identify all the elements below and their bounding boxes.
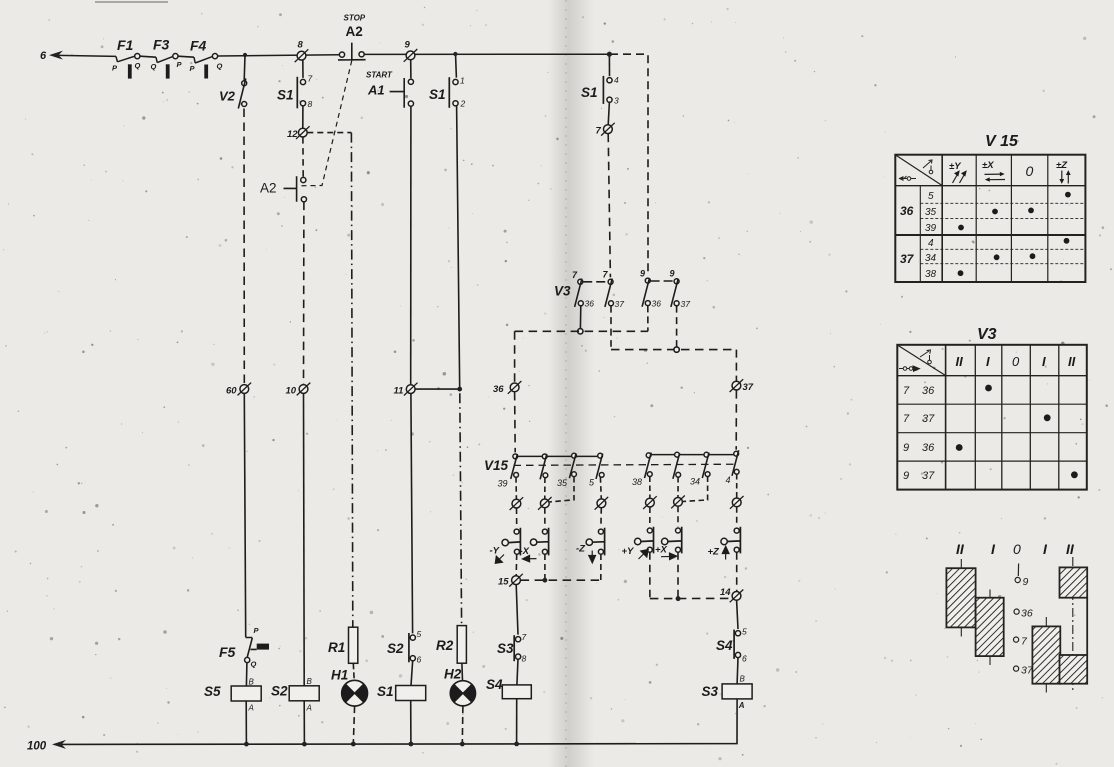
node junction bus S4 <box>514 742 519 747</box>
cam centerline II-left <box>960 559 962 637</box>
svg-text:II: II <box>956 541 965 557</box>
coil S3 <box>702 675 753 711</box>
wire col6 bus to S1 contact <box>608 57 610 77</box>
wire dashed 12 to column R1 <box>307 132 351 134</box>
node junction top bus x609 <box>607 52 612 57</box>
wire V15 r2 to terminal <box>677 477 679 498</box>
node junction bus S5 <box>244 742 249 747</box>
terminal v15-r4 <box>730 496 744 509</box>
wire top bus F1-F3 <box>140 56 156 57</box>
wire col5 dashed junction to R2 <box>460 393 462 625</box>
svg-text:R2: R2 <box>436 638 454 653</box>
svg-text:7: 7 <box>308 74 313 84</box>
wire col5 R2 to H2 <box>461 663 464 681</box>
svg-text:6: 6 <box>40 50 47 62</box>
contact V15 39 <box>513 454 518 459</box>
svg-text:B: B <box>249 678 255 687</box>
contact S1 pins 4 3 <box>581 75 619 106</box>
svg-text:A: A <box>248 704 254 713</box>
node open junction V3 37 <box>674 347 679 352</box>
svg-text:5: 5 <box>928 191 934 202</box>
svg-text:9: 9 <box>1023 576 1029 588</box>
wire top bus dashed end <box>610 54 648 276</box>
contact V15 rb <box>675 452 680 457</box>
wire terminal to button -Y <box>516 508 518 527</box>
terminal v15-1 <box>510 497 524 510</box>
wire V15 left top rail <box>515 455 600 457</box>
svg-text:Q: Q <box>251 660 257 669</box>
pushbutton -Z <box>576 528 605 563</box>
contact V15 5 <box>598 453 603 458</box>
wire top bus STOP to corner <box>364 53 610 55</box>
svg-text:H1: H1 <box>331 668 348 683</box>
svg-text:Q: Q <box>151 62 157 71</box>
pushbutton +X <box>655 527 682 560</box>
row lines <box>895 185 1085 187</box>
svg-text:A2: A2 <box>346 24 363 39</box>
header labels <box>949 160 1068 179</box>
node 6 top feed arrow <box>49 51 116 60</box>
contact V15 35 <box>572 453 577 458</box>
svg-text:7: 7 <box>596 126 602 137</box>
svg-text:+Z: +Z <box>708 547 721 558</box>
node junction top bus x245 <box>243 53 247 57</box>
svg-text:A1: A1 <box>367 83 385 98</box>
svg-text:I: I <box>1042 354 1046 369</box>
svg-text:Q: Q <box>135 61 141 70</box>
column lines <box>941 155 943 282</box>
overload release F5 <box>219 626 269 669</box>
fuse F1 <box>112 37 141 79</box>
svg-text:37: 37 <box>743 382 754 393</box>
wire mech link STOP to A2 <box>298 61 352 186</box>
wire col3 dash-dot 12 line down to R1 <box>351 133 352 628</box>
svg-text:V 15: V 15 <box>985 133 1019 150</box>
wire S4 coil to bus <box>516 699 518 744</box>
svg-text:±Z: ±Z <box>1056 160 1068 171</box>
fuse F4 <box>190 38 223 79</box>
svg-text:6: 6 <box>417 655 422 665</box>
svg-text:A: A <box>306 704 312 713</box>
svg-text:9: 9 <box>670 269 675 279</box>
svg-text:36: 36 <box>493 384 504 395</box>
wire terminal to button -X <box>544 508 546 528</box>
contact V15 4 <box>734 451 739 456</box>
svg-text:34: 34 <box>690 477 700 487</box>
svg-text:9: 9 <box>903 470 909 482</box>
node junction bus H1 <box>351 742 356 747</box>
svg-text:8: 8 <box>298 40 304 51</box>
contact S2 pins 5 6 <box>387 629 422 665</box>
svg-text:34: 34 <box>925 253 937 264</box>
cam block track36 left <box>946 568 975 627</box>
contact S1 pins 7 8 <box>277 74 313 110</box>
svg-text:V3: V3 <box>977 326 997 343</box>
svg-text:V2: V2 <box>219 89 236 104</box>
svg-text:36: 36 <box>585 299 595 309</box>
wire col5 bus to S1 contact <box>455 56 458 78</box>
cam contact 37 <box>1014 665 1034 677</box>
svg-text:5: 5 <box>742 627 747 637</box>
wire button +Y to rail 14 <box>649 552 651 598</box>
wire V15 c1 to terminal <box>515 477 517 499</box>
svg-text:14: 14 <box>720 587 731 598</box>
wire col1 V2 drop <box>243 55 246 81</box>
wire terminal to button +Z <box>736 507 738 527</box>
wire col3 R1 to H1 <box>352 663 355 680</box>
wire col4 11 to S2 contact <box>411 394 413 634</box>
table V15 <box>895 155 1085 282</box>
pushbutton +Z <box>708 527 741 560</box>
svg-text:S1: S1 <box>581 85 598 100</box>
svg-text:Q: Q <box>217 62 223 71</box>
svg-text:8: 8 <box>522 654 527 664</box>
wire col2 bus to S1 contact <box>302 60 304 78</box>
wire rail 15 dashed <box>521 579 601 581</box>
svg-text:7: 7 <box>903 385 910 397</box>
svg-text:0: 0 <box>1012 354 1020 369</box>
svg-text:9: 9 <box>903 442 909 454</box>
svg-text:-X: -X <box>520 546 530 557</box>
svg-text:R1: R1 <box>328 640 345 655</box>
wire dashed 37 to V15 contact 4 <box>735 390 737 450</box>
svg-text:36: 36 <box>922 385 935 397</box>
svg-text:37: 37 <box>1021 665 1034 677</box>
svg-text:9: 9 <box>640 269 645 279</box>
svg-text:8: 8 <box>308 99 313 109</box>
svg-text:V15: V15 <box>484 458 509 473</box>
contact V3 7-36 <box>578 279 583 284</box>
corner diagonal <box>896 155 942 185</box>
dots <box>956 385 1078 479</box>
terminal 10 <box>286 383 311 397</box>
svg-text:1: 1 <box>460 76 465 86</box>
terminal v15-r2 <box>671 496 685 509</box>
svg-text:S1: S1 <box>429 87 446 102</box>
terminal 60 <box>226 383 251 397</box>
wire corner down to terminal 37 <box>735 350 737 382</box>
svg-text:H2: H2 <box>444 667 462 682</box>
svg-text:S4: S4 <box>486 677 503 692</box>
node junction rail 15 <box>543 578 548 583</box>
resistor R1 <box>328 627 358 663</box>
svg-text:39: 39 <box>925 223 937 234</box>
wire 11 to col5 junction <box>415 388 460 390</box>
corner diagonal <box>898 345 946 375</box>
node 100 bottom bus with arrow <box>52 740 517 749</box>
contact group V15 <box>484 450 739 488</box>
terminal 36 <box>493 381 521 395</box>
svg-text:±X: ±X <box>982 160 994 171</box>
svg-text:F5: F5 <box>219 644 236 660</box>
lamp H1 <box>331 668 368 707</box>
svg-text:4: 4 <box>928 238 934 249</box>
svg-text:0: 0 <box>1013 541 1021 557</box>
wire V15 r1 to terminal <box>649 477 651 499</box>
node junction col5 x459 <box>457 387 462 392</box>
svg-text:F3: F3 <box>153 37 170 53</box>
dots <box>958 192 1071 276</box>
pushbutton -Y <box>490 528 521 564</box>
wire 14 down to S4 contact <box>737 600 738 629</box>
terminal 14 <box>720 587 743 602</box>
svg-text:A: A <box>738 701 745 710</box>
wire corner down to terminal 36 <box>514 331 516 383</box>
svg-text:37: 37 <box>922 470 935 482</box>
contact V2 <box>219 78 247 108</box>
wire dashed 36 to V15 rail <box>514 392 517 453</box>
svg-text:3: 3 <box>614 96 619 106</box>
wire V15 c3 jog to c2 terminal <box>550 477 574 502</box>
coil S2 <box>271 677 319 713</box>
cam block track9 right <box>1060 567 1088 597</box>
wire S4 contact to S3 coil <box>736 658 739 685</box>
wire col6 dashed 7 down to V3 <box>608 134 610 278</box>
svg-text:38: 38 <box>925 269 937 280</box>
pushbutton -X <box>520 528 549 562</box>
svg-text:60: 60 <box>226 386 237 397</box>
wire col2 10 to S2 coil <box>303 394 306 686</box>
pushbutton +Y <box>622 527 654 559</box>
node junction bus H2 <box>460 742 465 747</box>
wire col4 S1 coil to bus <box>410 701 412 744</box>
terminal 15 <box>498 574 523 588</box>
svg-text:S1: S1 <box>277 88 294 103</box>
coil S5 <box>204 678 261 713</box>
wire terminal to button +X <box>677 506 679 526</box>
wire dashed rail 36 <box>515 330 648 332</box>
wire col1 dashed V2 to 60 <box>243 109 245 385</box>
resistor R2 <box>436 626 466 664</box>
svg-text:35: 35 <box>925 207 937 218</box>
wire col5 S1 contact down to junction <box>457 106 460 390</box>
cam contact 36 <box>1014 608 1033 620</box>
svg-text:10: 10 <box>286 386 297 397</box>
svg-text:S4: S4 <box>716 638 733 653</box>
cam centerline I-left <box>989 590 991 666</box>
svg-text:+X: +X <box>655 545 668 556</box>
svg-text:37: 37 <box>615 299 625 309</box>
svg-text:12: 12 <box>287 129 298 140</box>
svg-text:4: 4 <box>614 75 619 85</box>
wire V3 A-B top link <box>583 281 608 283</box>
wire V15 mechanical link dashed <box>514 464 738 465</box>
svg-text:II: II <box>956 354 964 369</box>
svg-text:100: 100 <box>27 741 47 753</box>
contact V15 38 <box>646 453 651 458</box>
cam centerline II-right dash-dot <box>1072 557 1074 691</box>
wire V15 r3 jog to r2 terminal <box>683 477 708 502</box>
cam right edge connector <box>1086 598 1088 655</box>
wire col3 H1 to bus <box>353 706 354 744</box>
cam block track7 left <box>976 598 1004 656</box>
svg-text:4: 4 <box>726 475 731 485</box>
svg-text:A2: A2 <box>260 181 277 196</box>
terminal v15-2 <box>538 497 552 510</box>
svg-text:0: 0 <box>1026 163 1034 179</box>
svg-text:B: B <box>740 675 746 684</box>
svg-text:V3: V3 <box>554 284 571 299</box>
node junction bus S2 <box>302 742 307 747</box>
svg-text:9: 9 <box>405 40 411 51</box>
table V3 <box>897 345 1087 490</box>
wire col1 60 to F5 <box>244 393 245 637</box>
node junction bus S1 <box>409 742 414 747</box>
wire col1 S5 to bus <box>245 701 247 744</box>
svg-text:2: 2 <box>460 99 466 109</box>
contact S3 pins 7 8 <box>497 632 527 664</box>
wire S3 coil to bottom bus <box>517 699 738 744</box>
wire V15 r4 to terminal <box>736 474 738 498</box>
wire col2 S2 coil to bus <box>303 701 305 744</box>
svg-text:36: 36 <box>900 204 914 218</box>
header labels <box>956 354 1076 369</box>
contact V3 9-37 <box>674 279 679 284</box>
node junction rail 14 <box>676 596 681 601</box>
wire V3 B bottom down <box>610 306 612 347</box>
svg-text:II: II <box>1068 354 1076 369</box>
wire col1 F5 to S5 coil <box>245 663 248 687</box>
node open junction V3 36 <box>578 329 583 334</box>
contact V15 b <box>542 454 547 459</box>
svg-text:36: 36 <box>922 442 935 454</box>
terminal 37 <box>730 379 754 393</box>
terminal v15-r1 <box>643 496 657 509</box>
terminal 11 <box>394 383 418 397</box>
header arrows <box>953 170 1071 184</box>
svg-text:36: 36 <box>1021 608 1033 620</box>
coil S1 <box>377 684 426 701</box>
row group labels <box>900 191 937 280</box>
svg-text:STOP: STOP <box>344 14 366 23</box>
row labels <box>903 385 935 482</box>
coil S4 <box>486 677 531 699</box>
svg-text:-Z: -Z <box>576 544 586 555</box>
terminal v15-4 <box>595 497 609 510</box>
wire S3 contact to S4 coil <box>517 659 518 685</box>
wire V15 c2 to terminal <box>544 478 546 500</box>
svg-text:7: 7 <box>522 632 527 642</box>
terminal 7 <box>596 123 615 137</box>
wire button +Z to 14 <box>736 552 738 591</box>
wire button +X to rail 14 <box>677 552 679 598</box>
svg-text:B: B <box>307 677 313 686</box>
wire V3 C bottom to rail <box>647 305 649 331</box>
contact S1 pins 1 2 <box>429 76 466 109</box>
svg-text:35: 35 <box>557 478 568 488</box>
svg-text:START: START <box>366 71 393 80</box>
svg-text:S1: S1 <box>377 684 394 699</box>
svg-text:6: 6 <box>742 654 747 664</box>
svg-text:37: 37 <box>922 413 935 425</box>
svg-text:S2: S2 <box>271 684 288 699</box>
wire col2 dashed A2 to 10 <box>303 202 305 385</box>
wire V15 right top rail <box>649 454 737 456</box>
svg-text:S3: S3 <box>497 641 514 656</box>
contact V3 7-37 <box>608 279 613 284</box>
cam centerline I-right <box>1045 617 1047 693</box>
wire button -Z to rail 15 <box>600 554 602 580</box>
svg-text:S2: S2 <box>387 641 404 656</box>
lamp H2 <box>444 667 476 706</box>
contact group V3 <box>554 269 690 310</box>
svg-text:I: I <box>986 354 990 369</box>
terminal 9 <box>404 40 418 62</box>
wire terminal to button -Z <box>600 508 602 528</box>
wire top bus F3-F4 <box>178 56 194 57</box>
wire dashed rail 37 <box>611 349 736 351</box>
wire col2 dashed 12 to A2 contact <box>302 137 304 178</box>
wire col4 S2 contact to S1 coil <box>411 660 413 685</box>
wire col4 bus to A1 <box>410 60 412 78</box>
svg-text:39: 39 <box>498 479 508 489</box>
svg-text:7: 7 <box>903 413 910 425</box>
wire V3 D bottom down <box>676 306 678 347</box>
cam position labels <box>956 541 1075 557</box>
wire button -X to rail 15 <box>544 554 546 579</box>
cam block track7 right <box>1032 626 1060 683</box>
svg-text:38: 38 <box>632 477 642 487</box>
svg-text:36: 36 <box>652 299 662 309</box>
svg-text:S3: S3 <box>702 684 719 699</box>
cam contact 9 <box>1015 564 1028 589</box>
contact A2 <box>260 176 307 202</box>
wire button -Y to rail 15 <box>515 554 518 576</box>
wire 15 down to S3 contact <box>516 585 518 635</box>
svg-text:+Y: +Y <box>622 546 636 557</box>
wire col4 A1 to 11 <box>410 106 412 385</box>
wire V15 c4 to terminal <box>599 477 602 499</box>
wire col5 H2 to bus <box>461 706 464 744</box>
svg-text:-Y: -Y <box>490 546 501 557</box>
wire col2 S1 to terminal 12 <box>302 106 304 129</box>
terminal 8 <box>295 40 309 63</box>
svg-text:37: 37 <box>681 299 691 309</box>
svg-text:F4: F4 <box>190 38 207 54</box>
wire terminal to button +Y <box>649 507 651 527</box>
svg-text:15: 15 <box>498 577 509 588</box>
svg-text:11: 11 <box>394 386 404 397</box>
wire rail 14 dashed <box>650 597 732 599</box>
pushbutton START A1 <box>366 71 414 108</box>
wire V3 A bottom to junction <box>579 306 581 329</box>
cam block track37 right <box>1060 655 1088 684</box>
wire top bus F4 to STOP button <box>218 55 340 56</box>
contact V3 9-36 <box>645 278 650 283</box>
cam contact 7 <box>1014 636 1029 648</box>
wire V3 C-D top link <box>651 280 674 282</box>
node junction top bus x455 <box>453 52 457 56</box>
terminal 12 <box>287 126 310 140</box>
pushbutton STOP A2 <box>338 14 366 60</box>
svg-text:5: 5 <box>417 629 422 639</box>
contact V15 34 <box>704 452 709 457</box>
svg-text:±Y: ±Y <box>949 161 962 172</box>
wire col6 S1 to terminal 7 <box>608 102 609 125</box>
svg-text:II: II <box>1066 541 1075 557</box>
contact S4 pins 5 6 <box>716 627 747 664</box>
fuse F3 <box>151 37 183 79</box>
svg-text:S5: S5 <box>204 684 221 699</box>
svg-text:37: 37 <box>900 252 915 266</box>
svg-text:F1: F1 <box>117 37 134 53</box>
